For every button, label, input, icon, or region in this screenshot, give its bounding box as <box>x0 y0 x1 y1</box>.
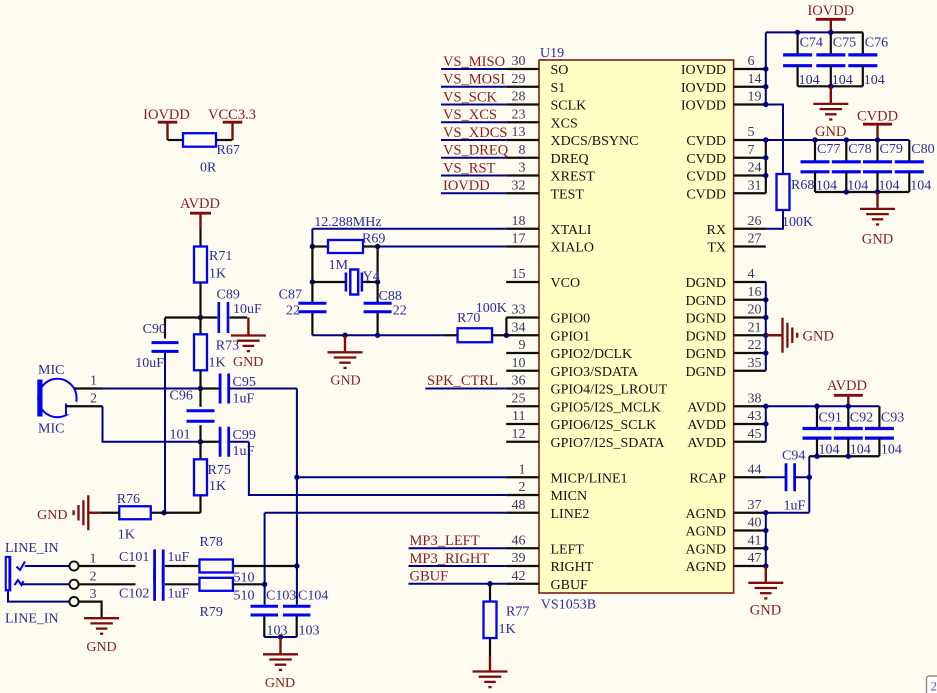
svg-text:GPIO5/I2S_MCLK: GPIO5/I2S_MCLK <box>551 400 661 415</box>
svg-text:IOVDD: IOVDD <box>443 178 490 194</box>
svg-text:2: 2 <box>90 570 97 585</box>
svg-text:24: 24 <box>748 161 762 176</box>
svg-text:GND: GND <box>803 329 834 345</box>
svg-text:C103: C103 <box>266 589 296 604</box>
svg-text:1K: 1K <box>209 356 226 371</box>
svg-text:45: 45 <box>748 427 762 442</box>
svg-text:R69: R69 <box>362 232 385 247</box>
svg-text:C78: C78 <box>848 142 871 157</box>
svg-text:1uF: 1uF <box>784 499 806 514</box>
svg-text:15: 15 <box>512 267 526 282</box>
svg-text:16: 16 <box>748 285 762 300</box>
svg-text:C88: C88 <box>379 289 402 304</box>
svg-text:DGND: DGND <box>686 276 726 291</box>
svg-text:3: 3 <box>519 161 526 176</box>
svg-text:R73: R73 <box>216 339 239 354</box>
svg-text:LEFT: LEFT <box>551 542 585 557</box>
svg-text:43: 43 <box>748 409 762 424</box>
svg-text:SCLK: SCLK <box>551 99 587 114</box>
svg-text:GND: GND <box>86 640 116 655</box>
svg-text:AGND: AGND <box>686 560 726 575</box>
svg-text:XIALO: XIALO <box>551 241 595 256</box>
svg-text:GND: GND <box>37 508 67 523</box>
svg-text:GND: GND <box>233 355 263 370</box>
svg-text:2: 2 <box>519 480 526 495</box>
svg-text:21: 21 <box>748 320 762 335</box>
svg-text:35: 35 <box>748 356 762 371</box>
svg-text:IOVDD: IOVDD <box>681 81 726 96</box>
svg-text:R77: R77 <box>506 605 529 620</box>
svg-text:14: 14 <box>748 72 762 87</box>
svg-text:3: 3 <box>90 587 97 602</box>
svg-text:SO: SO <box>551 63 569 78</box>
svg-text:1: 1 <box>519 462 526 477</box>
svg-text:12: 12 <box>512 427 526 442</box>
svg-text:GND: GND <box>815 124 846 140</box>
svg-text:C92: C92 <box>850 411 873 426</box>
svg-text:RIGHT: RIGHT <box>551 560 594 575</box>
svg-text:104: 104 <box>879 179 900 194</box>
svg-text:42: 42 <box>512 569 526 584</box>
svg-text:AVDD: AVDD <box>687 436 726 451</box>
svg-text:104: 104 <box>864 73 885 88</box>
svg-text:MIC: MIC <box>38 422 64 437</box>
svg-text:1uF: 1uF <box>168 587 190 602</box>
svg-text:SPK_CTRL: SPK_CTRL <box>427 373 498 389</box>
svg-text:XCS: XCS <box>551 116 578 131</box>
svg-text:VCC3.3: VCC3.3 <box>208 107 256 123</box>
svg-text:26: 26 <box>748 214 762 229</box>
svg-text:VS_RST: VS_RST <box>443 160 496 176</box>
svg-text:IOVDD: IOVDD <box>143 107 190 123</box>
svg-text:IOVDD: IOVDD <box>681 99 726 114</box>
svg-text:DGND: DGND <box>686 294 726 309</box>
svg-text:1K: 1K <box>118 528 135 543</box>
svg-text:104: 104 <box>816 179 837 194</box>
svg-text:VCO: VCO <box>551 276 581 291</box>
svg-text:R68: R68 <box>791 178 814 193</box>
svg-text:104: 104 <box>881 443 902 458</box>
svg-text:2: 2 <box>931 679 937 693</box>
svg-text:TX: TX <box>707 241 726 256</box>
svg-text:VS_XDCS: VS_XDCS <box>443 125 507 141</box>
svg-text:9: 9 <box>519 338 526 353</box>
svg-text:VS1053B: VS1053B <box>541 598 596 613</box>
svg-text:GPIO1: GPIO1 <box>551 329 591 344</box>
svg-text:29: 29 <box>512 72 526 87</box>
svg-text:DGND: DGND <box>686 312 726 327</box>
svg-text:40: 40 <box>748 516 762 531</box>
svg-text:XTALI: XTALI <box>551 223 592 238</box>
svg-text:AVDD: AVDD <box>687 400 726 415</box>
svg-text:38: 38 <box>748 391 762 406</box>
svg-text:LINE2: LINE2 <box>551 507 590 522</box>
svg-text:GND: GND <box>862 232 893 248</box>
svg-text:VS_MISO: VS_MISO <box>443 54 505 70</box>
svg-text:C101: C101 <box>119 550 149 565</box>
svg-text:DGND: DGND <box>686 365 726 380</box>
svg-text:R75: R75 <box>208 463 231 478</box>
svg-text:C96: C96 <box>170 389 193 404</box>
svg-text:R71: R71 <box>209 249 232 264</box>
svg-text:10uF: 10uF <box>233 302 262 317</box>
svg-text:104: 104 <box>847 179 868 194</box>
svg-text:IOVDD: IOVDD <box>807 3 854 19</box>
svg-text:MICP/LINE1: MICP/LINE1 <box>551 471 628 486</box>
svg-text:23: 23 <box>512 107 526 122</box>
svg-text:7: 7 <box>748 143 755 158</box>
svg-text:GPIO7/I2S_SDATA: GPIO7/I2S_SDATA <box>551 436 666 451</box>
svg-text:R79: R79 <box>200 605 223 620</box>
svg-text:20: 20 <box>748 303 762 318</box>
svg-text:37: 37 <box>748 498 762 513</box>
svg-text:DGND: DGND <box>686 329 726 344</box>
svg-text:25: 25 <box>512 391 526 406</box>
svg-text:41: 41 <box>748 533 762 548</box>
svg-text:TEST: TEST <box>551 187 585 202</box>
svg-text:AVDD: AVDD <box>687 418 726 433</box>
svg-text:C87: C87 <box>279 288 302 303</box>
svg-text:RX: RX <box>707 223 726 238</box>
svg-text:33: 33 <box>512 303 526 318</box>
svg-text:AVDD: AVDD <box>180 196 220 212</box>
svg-text:104: 104 <box>819 443 840 458</box>
svg-text:CVDD: CVDD <box>686 187 726 202</box>
svg-text:6: 6 <box>748 54 755 69</box>
svg-text:GND: GND <box>750 603 781 619</box>
svg-text:VS_MOSI: VS_MOSI <box>443 72 505 88</box>
svg-text:C90: C90 <box>143 322 166 337</box>
svg-text:GPIO3/SDATA: GPIO3/SDATA <box>551 365 639 380</box>
svg-text:510: 510 <box>234 589 255 604</box>
svg-text:C77: C77 <box>817 142 840 157</box>
svg-text:1M: 1M <box>329 258 349 273</box>
svg-text:100K: 100K <box>782 215 813 230</box>
svg-text:U19: U19 <box>540 46 564 61</box>
svg-text:1K: 1K <box>209 479 226 494</box>
svg-text:MP3_LEFT: MP3_LEFT <box>410 533 480 549</box>
svg-text:LINE_IN: LINE_IN <box>5 541 59 556</box>
svg-text:1uF: 1uF <box>233 392 255 407</box>
svg-text:MICN: MICN <box>551 489 588 504</box>
svg-text:1uF: 1uF <box>233 444 255 459</box>
svg-text:AGND: AGND <box>686 507 726 522</box>
svg-text:C91: C91 <box>819 411 842 426</box>
svg-text:R76: R76 <box>117 492 140 507</box>
svg-text:Y4: Y4 <box>363 270 380 285</box>
svg-text:DGND: DGND <box>686 347 726 362</box>
svg-text:34: 34 <box>512 320 526 335</box>
svg-text:32: 32 <box>512 178 526 193</box>
svg-text:C79: C79 <box>880 142 903 157</box>
svg-text:19: 19 <box>748 90 762 105</box>
svg-text:RCAP: RCAP <box>689 471 726 486</box>
svg-text:C93: C93 <box>881 411 904 426</box>
svg-text:28: 28 <box>512 90 526 105</box>
svg-text:R67: R67 <box>217 143 240 158</box>
svg-text:XDCS/BSYNC: XDCS/BSYNC <box>551 134 639 149</box>
svg-text:AGND: AGND <box>686 525 726 540</box>
svg-text:47: 47 <box>748 551 762 566</box>
svg-text:GBUF: GBUF <box>551 578 589 593</box>
svg-text:C104: C104 <box>298 589 328 604</box>
svg-text:11: 11 <box>512 409 525 424</box>
svg-text:CVDD: CVDD <box>686 170 726 185</box>
svg-text:5: 5 <box>748 125 755 140</box>
svg-text:R78: R78 <box>200 535 223 550</box>
svg-text:C76: C76 <box>865 36 888 51</box>
svg-text:CVDD: CVDD <box>686 152 726 167</box>
svg-text:VS_DREQ: VS_DREQ <box>443 143 509 159</box>
svg-text:1uF: 1uF <box>168 550 190 565</box>
svg-text:GPIO4/I2S_LROUT: GPIO4/I2S_LROUT <box>551 383 668 398</box>
svg-text:C75: C75 <box>833 36 856 51</box>
svg-text:4: 4 <box>748 267 755 282</box>
svg-text:IOVDD: IOVDD <box>681 63 726 78</box>
svg-text:2: 2 <box>90 392 97 407</box>
svg-text:10uF: 10uF <box>135 356 164 371</box>
svg-text:C89: C89 <box>217 288 240 303</box>
svg-text:1K: 1K <box>209 267 226 282</box>
svg-text:44: 44 <box>748 462 762 477</box>
svg-text:104: 104 <box>832 73 853 88</box>
svg-text:0R: 0R <box>200 161 217 176</box>
svg-text:C94: C94 <box>782 449 805 464</box>
svg-text:36: 36 <box>512 374 526 389</box>
svg-text:GPIO2/DCLK: GPIO2/DCLK <box>551 347 633 362</box>
svg-text:GPIO0: GPIO0 <box>551 312 591 327</box>
svg-text:22: 22 <box>286 304 300 319</box>
svg-text:DREQ: DREQ <box>551 152 589 167</box>
svg-text:8: 8 <box>519 143 526 158</box>
svg-text:AVDD: AVDD <box>827 378 867 394</box>
svg-text:101: 101 <box>170 428 191 443</box>
svg-text:CVDD: CVDD <box>857 109 898 125</box>
svg-text:CVDD: CVDD <box>686 134 726 149</box>
svg-text:C80: C80 <box>911 142 934 157</box>
svg-text:17: 17 <box>512 232 526 247</box>
svg-text:103: 103 <box>299 624 320 639</box>
svg-text:GPIO6/I2S_SCLK: GPIO6/I2S_SCLK <box>551 418 657 433</box>
svg-text:1: 1 <box>90 374 97 389</box>
svg-text:27: 27 <box>748 232 762 247</box>
svg-text:C102: C102 <box>119 587 149 602</box>
svg-text:104: 104 <box>850 443 871 458</box>
svg-text:C74: C74 <box>800 36 823 51</box>
svg-text:100K: 100K <box>476 301 507 316</box>
svg-text:48: 48 <box>512 498 526 513</box>
svg-text:1: 1 <box>90 552 97 567</box>
svg-text:GND: GND <box>330 374 360 389</box>
svg-text:104: 104 <box>910 179 931 194</box>
svg-text:18: 18 <box>512 214 526 229</box>
svg-text:22: 22 <box>748 338 762 353</box>
svg-text:GBUF: GBUF <box>410 569 449 585</box>
svg-text:13: 13 <box>512 125 526 140</box>
svg-text:LINE_IN: LINE_IN <box>5 612 59 627</box>
svg-text:MP3_RIGHT: MP3_RIGHT <box>410 551 490 567</box>
svg-text:10: 10 <box>512 356 526 371</box>
svg-text:XREST: XREST <box>551 170 596 185</box>
svg-text:104: 104 <box>799 73 820 88</box>
svg-text:46: 46 <box>512 533 526 548</box>
svg-text:VS_XCS: VS_XCS <box>443 107 497 123</box>
svg-text:39: 39 <box>512 551 526 566</box>
svg-text:VS_SCK: VS_SCK <box>443 89 498 105</box>
svg-text:30: 30 <box>512 54 526 69</box>
svg-text:GND: GND <box>265 676 295 691</box>
svg-text:MIC: MIC <box>38 363 64 378</box>
svg-text:1K: 1K <box>499 622 516 637</box>
svg-text:AGND: AGND <box>686 542 726 557</box>
svg-text:31: 31 <box>748 178 762 193</box>
svg-text:22: 22 <box>393 304 407 319</box>
svg-text:S1: S1 <box>551 81 566 96</box>
